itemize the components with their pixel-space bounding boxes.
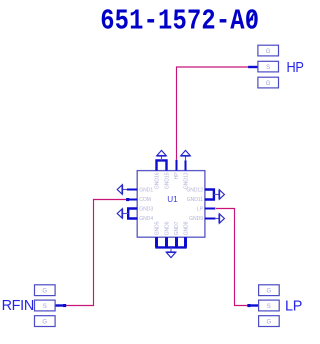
svg-text:GND15: GND15	[164, 172, 170, 189]
svg-text:GND13: GND13	[184, 172, 190, 189]
svg-text:G: G	[42, 319, 47, 325]
svg-text:G: G	[267, 289, 272, 295]
svg-text:GND16: GND16	[155, 172, 161, 189]
svg-text:LP: LP	[285, 298, 302, 314]
svg-text:S: S	[267, 304, 271, 310]
svg-text:S: S	[43, 304, 47, 310]
svg-text:U1: U1	[167, 195, 178, 204]
svg-text:651-1572-A0: 651-1572-A0	[100, 5, 259, 37]
svg-text:GND9: GND9	[189, 216, 203, 222]
svg-text:G: G	[267, 319, 272, 325]
svg-text:G: G	[266, 81, 271, 87]
svg-text:LP: LP	[197, 207, 204, 213]
svg-text:COM: COM	[139, 197, 151, 203]
svg-text:HP: HP	[174, 172, 180, 180]
svg-text:GND8: GND8	[184, 221, 190, 235]
svg-text:GND4: GND4	[139, 216, 153, 222]
svg-text:GND6: GND6	[164, 221, 170, 235]
svg-text:S: S	[266, 65, 270, 71]
svg-text:RFIN: RFIN	[2, 298, 34, 314]
svg-text:GND5: GND5	[155, 221, 161, 235]
svg-text:G: G	[266, 49, 271, 55]
svg-text:GND3: GND3	[139, 207, 153, 213]
svg-text:HP: HP	[287, 59, 304, 75]
svg-text:GND7: GND7	[174, 221, 180, 235]
svg-text:GND11: GND11	[187, 197, 204, 203]
svg-text:G: G	[42, 289, 47, 295]
svg-text:GND1: GND1	[139, 187, 153, 193]
